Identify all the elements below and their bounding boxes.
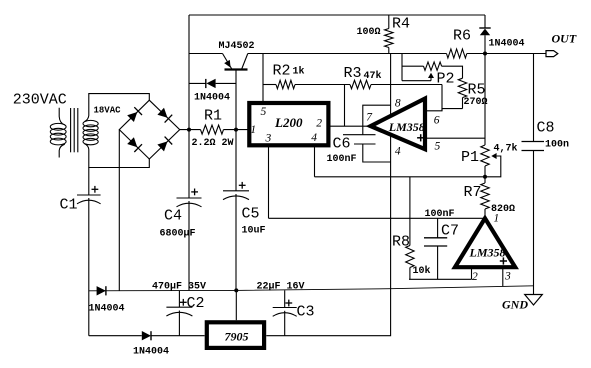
resistor R5 bottom lead bbox=[462, 98, 464, 109]
resistor R8 bbox=[406, 246, 414, 268]
wire rail2 after R6 bbox=[467, 53, 547, 55]
svg-text:2: 2 bbox=[472, 271, 478, 283]
bridge diode D-D bbox=[157, 141, 167, 151]
transistor Q1 emitter bbox=[223, 54, 232, 70]
U2B pin2 wire bbox=[409, 278, 472, 280]
bridge diode D-B bbox=[157, 108, 167, 118]
wire P2 right bbox=[442, 66, 463, 78]
svg-text:1N4004: 1N4004 bbox=[489, 39, 525, 50]
svg-text:6800µF: 6800µF bbox=[160, 229, 196, 240]
capacitor C3 top lead bbox=[284, 290, 286, 307]
svg-text:100Ω: 100Ω bbox=[357, 27, 381, 38]
transistor Q1 base bar bbox=[225, 68, 248, 70]
svg-text:R1: R1 bbox=[204, 108, 222, 125]
junction dot base/R1 bbox=[234, 128, 238, 132]
capacitor C5 bbox=[223, 190, 249, 192]
svg-text:R7: R7 bbox=[464, 184, 482, 201]
wire V- vertical bbox=[266, 162, 390, 336]
bridge rectifier diamond bbox=[119, 100, 179, 159]
svg-text:C5: C5 bbox=[242, 206, 260, 223]
P2 wiper arrow bbox=[428, 73, 434, 78]
svg-text:R4: R4 bbox=[392, 16, 410, 33]
svg-text:MJ4502: MJ4502 bbox=[219, 41, 255, 52]
wire R1 to L200 pin1 bbox=[224, 129, 250, 131]
U2A pin5 wire bbox=[425, 137, 485, 139]
capacitor C2 top lead bbox=[178, 291, 180, 308]
svg-text:P2: P2 bbox=[437, 71, 455, 88]
capacitor C6 plates bbox=[343, 134, 376, 136]
svg-text:5: 5 bbox=[261, 106, 267, 118]
potentiometer P1 bbox=[481, 145, 489, 166]
svg-text:C8: C8 bbox=[537, 120, 555, 137]
capacitor C3 bottom lead bbox=[284, 311, 286, 336]
L200 pin5 lead bbox=[262, 54, 264, 102]
svg-text:4: 4 bbox=[395, 146, 401, 158]
P2 wiper stem bbox=[430, 78, 432, 81]
transformer core bbox=[70, 108, 72, 152]
svg-text:P1: P1 bbox=[461, 149, 479, 166]
capacitor C8 plates bbox=[522, 141, 545, 143]
svg-text:100n: 100n bbox=[545, 140, 569, 151]
op-amp U2A pin8 lead bbox=[390, 54, 392, 117]
wire R8 top bbox=[409, 177, 411, 246]
junction dot rail/C5 bbox=[234, 288, 238, 292]
diode D2 1N4004 bar bbox=[105, 286, 107, 295]
op-amp U2A triangle bbox=[371, 99, 425, 150]
wire 7905 input bbox=[235, 290, 237, 320]
wire bridge - output vertical bbox=[118, 130, 120, 291]
wire P2 stub bbox=[401, 54, 403, 81]
wire rail2 left segment bbox=[189, 53, 223, 55]
bridge diode D-A bbox=[127, 112, 137, 122]
svg-text:270Ω: 270Ω bbox=[464, 97, 488, 108]
C1 plus bbox=[92, 188, 99, 190]
wire OUT node down to P1 bbox=[484, 54, 486, 146]
svg-text:4: 4 bbox=[311, 132, 317, 144]
L200 pin2 wire bbox=[330, 125, 371, 127]
wire R3net down to pin6 bbox=[441, 85, 443, 111]
svg-text:5: 5 bbox=[435, 141, 441, 153]
diode D1 1N4004 bar bbox=[205, 79, 207, 88]
transistor Q1 collector bbox=[242, 54, 248, 70]
svg-text:22µF 16V: 22µF 16V bbox=[257, 282, 305, 293]
U2A pin4 lead bbox=[390, 136, 392, 163]
svg-text:3: 3 bbox=[265, 133, 272, 145]
svg-text:R5: R5 bbox=[468, 82, 486, 99]
node secondary/C1 junction bbox=[88, 168, 90, 196]
resistor R5 bbox=[458, 78, 466, 97]
svg-text:GND: GND bbox=[502, 298, 528, 312]
transformer T1 secondary leads bbox=[85, 94, 150, 122]
svg-text:C6: C6 bbox=[333, 136, 351, 153]
C2 plus bbox=[180, 301, 187, 303]
svg-text:3: 3 bbox=[504, 271, 511, 283]
op-amp U2B triangle bbox=[455, 218, 515, 267]
diode D1 1N4004 triangle bbox=[206, 79, 215, 88]
svg-text:1: 1 bbox=[250, 124, 256, 136]
svg-text:C4: C4 bbox=[164, 208, 182, 225]
svg-text:LM358: LM358 bbox=[469, 246, 506, 260]
diode D4 bottom lead bbox=[484, 35, 486, 53]
wire left vertical bbox=[188, 15, 190, 130]
capacitor C8 bottom lead bbox=[533, 151, 535, 287]
P1 wiper wire bbox=[485, 156, 501, 177]
svg-text:1N4004: 1N4004 bbox=[89, 304, 125, 315]
svg-text:LM358: LM358 bbox=[388, 120, 425, 134]
svg-text:6: 6 bbox=[434, 115, 440, 127]
L200 pin3 lead bbox=[268, 147, 270, 218]
capacitor C1 bbox=[77, 194, 101, 196]
resistor R6 bbox=[447, 49, 467, 58]
GND stub bbox=[533, 286, 535, 295]
resistor R3 bbox=[350, 80, 371, 88]
resistor R4 bbox=[385, 29, 393, 48]
svg-text:C1: C1 bbox=[60, 197, 78, 214]
wire C1 to bottom rail bbox=[88, 198, 90, 336]
resistor R1 bbox=[201, 125, 224, 134]
bottom rail wire bbox=[89, 286, 534, 291]
ground symbol bbox=[525, 295, 543, 306]
wire pin4 rail bbox=[315, 176, 486, 178]
wire rail2 right segment bbox=[248, 53, 447, 55]
bottom wire left segment bbox=[89, 335, 142, 337]
svg-text:8: 8 bbox=[395, 98, 401, 110]
svg-text:1: 1 bbox=[494, 213, 500, 225]
node wire pin3 rail bbox=[269, 217, 486, 219]
svg-text:2.2Ω 2W: 2.2Ω 2W bbox=[192, 138, 234, 149]
OUT terminal bbox=[546, 51, 558, 57]
svg-text:4,7k: 4,7k bbox=[494, 143, 518, 155]
U2B plus sign bbox=[500, 260, 507, 262]
P1 bottom lead bbox=[484, 166, 486, 177]
U2B pin2 lead bbox=[471, 267, 473, 279]
capacitor C4 bottom lead bbox=[188, 201, 190, 290]
U2B pin3 lead bbox=[502, 267, 504, 286]
capacitor C6 top lead bbox=[363, 105, 391, 135]
resistor R7 bbox=[481, 183, 489, 209]
wire bridge + output bbox=[180, 129, 201, 131]
svg-text:R2: R2 bbox=[273, 63, 291, 80]
capacitor C5 top lead bbox=[235, 130, 237, 191]
wire R3 right bbox=[371, 84, 442, 86]
diode D4 top lead bbox=[484, 15, 486, 28]
svg-text:18VAC: 18VAC bbox=[94, 106, 122, 116]
capacitor C2 bbox=[166, 306, 192, 308]
svg-text:1N4004: 1N4004 bbox=[133, 347, 169, 358]
junction dot left-vert/R1 bbox=[187, 128, 191, 132]
diode D2 1N4004 triangle bbox=[97, 286, 106, 295]
capacitor C3 bbox=[273, 307, 297, 309]
svg-text:10uF: 10uF bbox=[242, 226, 266, 237]
diode D3 1N4004 bar bbox=[150, 331, 152, 340]
wire P2 left bbox=[402, 65, 424, 67]
svg-text:7: 7 bbox=[366, 112, 373, 124]
resistor R4 bottom lead bbox=[388, 48, 390, 54]
svg-text:100nF: 100nF bbox=[425, 209, 455, 220]
capacitor C6 bottom lead bbox=[363, 144, 391, 162]
svg-text:100nF: 100nF bbox=[327, 154, 357, 165]
resistor R8 bottom lead bbox=[409, 268, 411, 280]
resistor R4 top lead bbox=[388, 15, 390, 29]
svg-text:C2: C2 bbox=[187, 295, 205, 312]
svg-text:R6: R6 bbox=[453, 28, 471, 45]
P2 wiper wire bbox=[402, 80, 431, 82]
diode D4 1N4004 bar bbox=[479, 27, 490, 29]
wire top rail bbox=[189, 14, 485, 16]
wire R2-R3 bbox=[295, 84, 350, 86]
capacitor C7 bottom lead bbox=[437, 246, 439, 279]
capacitor C2 bottom lead bbox=[178, 311, 180, 336]
C4 plus bbox=[191, 191, 198, 193]
svg-text:10k: 10k bbox=[413, 265, 431, 277]
capacitor C8 top lead bbox=[533, 54, 535, 142]
U2A pin6 wire bbox=[425, 109, 463, 111]
capacitor C7 plates bbox=[424, 237, 447, 239]
diode D3 1N4004 triangle bbox=[142, 331, 151, 340]
regulator U1 L200 box bbox=[249, 103, 328, 145]
diode D4 1N4004 triangle bbox=[480, 29, 490, 36]
L200 pin4 lead bbox=[314, 147, 316, 177]
transistor Q1 base lead bbox=[235, 70, 237, 130]
wire clamp diode left bbox=[189, 82, 206, 84]
svg-text:C7: C7 bbox=[441, 223, 459, 240]
bridge diode D-C bbox=[127, 137, 137, 147]
P1 wiper arrow bbox=[491, 153, 496, 159]
transistor Q1 emitter arrow bbox=[224, 60, 230, 68]
wire R3 tap vertical bbox=[344, 85, 346, 127]
transformer T1 primary leads bbox=[59, 108, 65, 125]
svg-text:OUT: OUT bbox=[552, 32, 577, 46]
svg-text:L200: L200 bbox=[274, 115, 303, 130]
resistor R7 leads bbox=[484, 177, 486, 183]
junction dot P1/R7 bbox=[483, 175, 487, 179]
transformer T1 secondary winding bbox=[83, 120, 98, 126]
svg-text:1k: 1k bbox=[293, 66, 305, 78]
capacitor C7 top lead bbox=[437, 218, 439, 238]
svg-text:1N4004: 1N4004 bbox=[194, 93, 230, 104]
wire clamp diode right bbox=[216, 82, 236, 84]
svg-text:C3: C3 bbox=[297, 304, 315, 321]
wire pin5 to R2 bbox=[263, 84, 276, 86]
C5 plus bbox=[239, 184, 246, 186]
potentiometer P2 bbox=[424, 62, 442, 70]
svg-text:230VAC: 230VAC bbox=[13, 92, 67, 109]
bottom wire to 7905 bbox=[151, 335, 205, 337]
capacitor C4 top lead bbox=[188, 130, 190, 198]
junction dot OUT node bbox=[483, 52, 487, 56]
transformer T1 primary winding bbox=[50, 123, 66, 130]
C3 plus bbox=[285, 302, 292, 304]
svg-text:7905: 7905 bbox=[225, 330, 249, 344]
capacitor C5 bottom lead bbox=[235, 194, 237, 290]
regulator U3 7905 box bbox=[207, 322, 264, 348]
U2A plus sign bbox=[417, 137, 424, 139]
resistor R2 bbox=[276, 80, 295, 88]
svg-text:2: 2 bbox=[316, 118, 322, 130]
capacitor C4 bbox=[177, 197, 202, 199]
svg-text:R3: R3 bbox=[344, 65, 362, 82]
